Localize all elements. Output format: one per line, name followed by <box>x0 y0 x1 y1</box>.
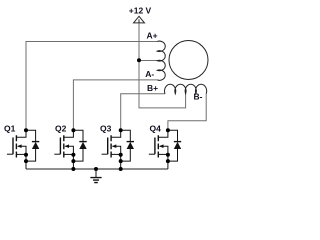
wire A- to Q2 drain <box>73 80 157 130</box>
svg-text:Q4: Q4 <box>150 123 162 133</box>
junction dot Q1 diode anode node <box>24 159 28 163</box>
junction dot ground symbol on ground bus <box>94 167 98 171</box>
junction dot winding A center tap on +12V rail <box>137 58 141 62</box>
junction dot Q3 source node <box>119 153 123 157</box>
transistor Q2 (N-MOSFET) <box>54 130 73 169</box>
junction dot Q4 drain node <box>166 128 170 132</box>
ground symbol <box>90 169 101 183</box>
junction dot Q3 diode anode node <box>119 159 123 163</box>
svg-text:A-: A- <box>145 69 154 79</box>
flyback diode D4 of Q4 <box>168 130 181 161</box>
junction dot Q4 diode anode node <box>166 159 170 163</box>
wire Q3 drain to B+ <box>121 94 165 130</box>
wire ground bus <box>26 168 168 170</box>
junction dot Q2 diode anode node <box>71 159 75 163</box>
+12V supply arrow symbol <box>134 16 145 23</box>
inductor winding B <box>165 84 207 94</box>
junction dot Q2 drain node <box>71 128 75 132</box>
svg-text:B+: B+ <box>147 83 158 93</box>
junction dot Q3 source on ground bus <box>119 167 123 171</box>
svg-text:Q2: Q2 <box>55 123 67 133</box>
junction dot Q4 source node <box>166 153 170 157</box>
motor body circle <box>169 41 208 80</box>
junction dot Q1 source node <box>24 153 28 157</box>
svg-text:A+: A+ <box>147 30 158 40</box>
junction dot Q2 source on ground bus <box>71 167 75 171</box>
wire winding A center tap <box>139 60 158 62</box>
junction dot Q1 drain node <box>24 128 28 132</box>
flyback diode D3 of Q3 <box>121 130 134 161</box>
wire B- to Q4 drain <box>168 94 206 131</box>
transistor Q4 (N-MOSFET) <box>149 130 168 169</box>
inductor winding A <box>157 41 165 80</box>
junction dot Q2 source node <box>71 153 75 157</box>
wire +12V rail down to winding B center tap <box>139 23 186 108</box>
transistor Q3 (N-MOSFET) <box>102 130 121 169</box>
junction dot Q3 drain node <box>119 128 123 132</box>
wire Q1 drain to A+ <box>26 42 157 131</box>
transistor Q1 (N-MOSFET) <box>7 130 26 169</box>
svg-text:B-: B- <box>194 91 203 101</box>
svg-text:Q1: Q1 <box>4 123 16 133</box>
flyback diode D2 of Q2 <box>73 130 86 161</box>
svg-text:+12 V: +12 V <box>129 5 152 15</box>
flyback diode D1 of Q1 <box>26 130 39 161</box>
svg-text:Q3: Q3 <box>100 123 112 133</box>
